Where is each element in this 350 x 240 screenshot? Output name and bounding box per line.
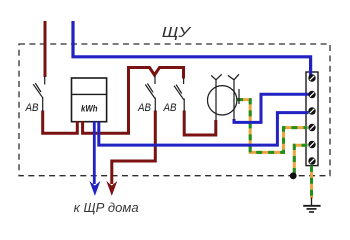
ground symbol <box>303 198 320 213</box>
breaker AB2 <box>145 75 155 111</box>
PE wire lamp to terminal 4 (yellow-green) <box>237 100 308 153</box>
terminal screw 4 <box>308 124 315 131</box>
wire AB3 output to lamp (dark red) <box>184 111 216 136</box>
svg-text:к ЩР дома: к ЩР дома <box>74 200 139 215</box>
svg-text:ЩУ: ЩУ <box>162 25 192 41</box>
terminal block X1 <box>306 72 318 166</box>
wire kWh phase out to breaker bus (dark red) <box>83 68 184 134</box>
terminal screw 5 <box>308 141 315 148</box>
terminal screw 1 <box>308 74 315 81</box>
lamp luminaire EL1 <box>208 74 240 120</box>
svg-text:kWh: kWh <box>81 104 98 115</box>
wire kWh neutral out to terminal 3 (blue) <box>99 113 309 146</box>
neutral feed wire N (blue) <box>73 21 311 77</box>
phase feed wire L (dark red) <box>44 21 47 77</box>
PE wire terminal 5 to enclosure dot (yellow-green) <box>294 145 307 176</box>
wire AB1 output to kWh input (dark red) <box>43 111 78 134</box>
breaker AB3 <box>174 78 184 111</box>
kWh meter box <box>72 78 107 122</box>
terminal screw 2 <box>308 91 315 98</box>
svg-text:АВ: АВ <box>25 102 39 114</box>
wire AB2 output to house feed arrow (dark red) <box>112 111 156 185</box>
PE wire terminal block to ground (yellow-green) <box>310 166 313 199</box>
breaker AB1 <box>33 76 45 111</box>
wire kWh neutral to house arrow (blue) <box>93 122 96 185</box>
arrow to house (blue) <box>90 182 100 195</box>
svg-text:АВ: АВ <box>163 102 177 114</box>
terminal screw 6 <box>308 157 315 164</box>
junction dot PE to enclosure <box>290 172 297 179</box>
terminal screw 3 <box>308 107 315 114</box>
arrow to house (dark red) <box>107 182 117 195</box>
wire lamp neutral to terminal 2 (blue) <box>234 94 309 122</box>
enclosure ЩУ dashed border <box>19 44 330 176</box>
svg-text:АВ: АВ <box>137 102 151 114</box>
